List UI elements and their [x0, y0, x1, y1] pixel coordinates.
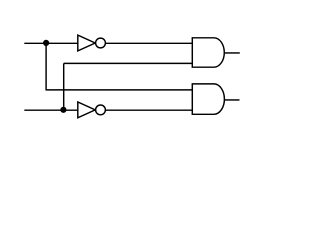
- wire inverter U1 output to top AND gate: [105, 42, 192, 44]
- AND gate U4 (bottom): [192, 84, 224, 114]
- node B junction dot: [60, 107, 66, 113]
- AND gate U3 (top): [192, 38, 224, 67]
- wire cross to top AND gate bottom input: [64, 62, 193, 64]
- wire top AND gate output: [224, 52, 240, 54]
- inverter U2 bubble: [96, 105, 106, 115]
- wire inverter U2 output to bottom AND gate: [105, 109, 192, 111]
- wire cross to bottom AND gate top input: [46, 89, 192, 91]
- wire input A: [24, 42, 78, 44]
- inverter U1 bubble: [96, 38, 106, 48]
- node A junction dot: [43, 40, 49, 46]
- wire input B: [24, 109, 78, 111]
- inverter U1 triangle: [78, 35, 95, 51]
- wire vertical from node A down: [45, 43, 47, 90]
- inverter U2 triangle: [78, 102, 95, 118]
- wire vertical from node B up: [63, 63, 65, 110]
- wire bottom AND gate output: [225, 99, 240, 101]
